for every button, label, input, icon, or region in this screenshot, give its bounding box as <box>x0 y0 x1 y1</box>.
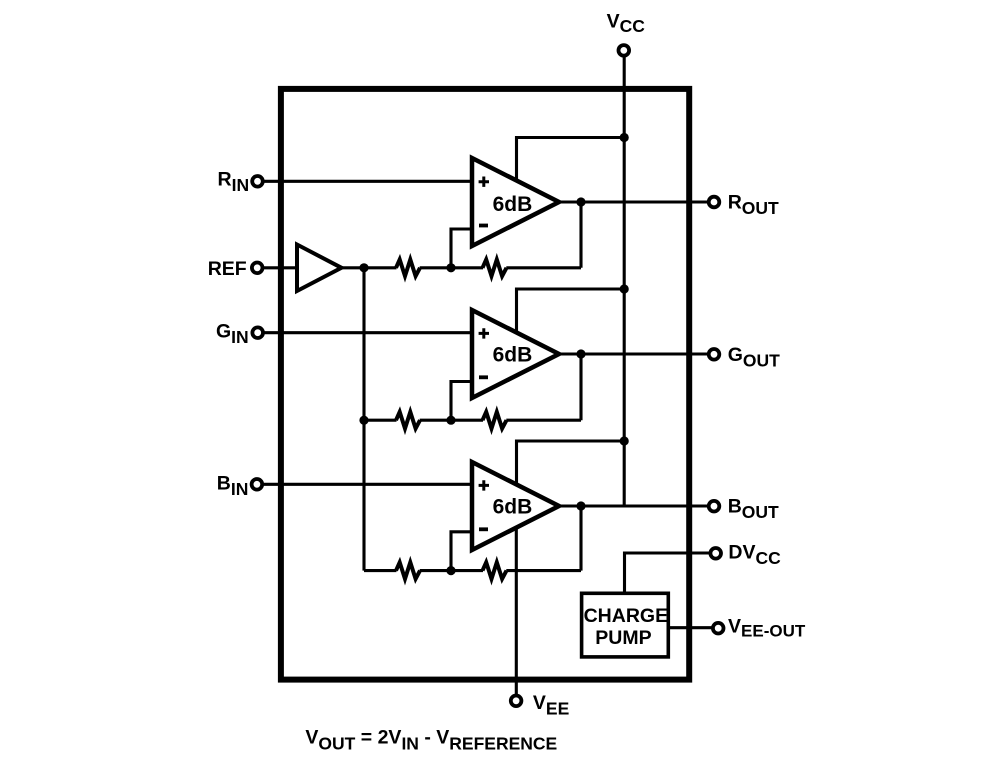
junction dot VCC-R <box>620 133 629 142</box>
charge pump block <box>582 593 669 657</box>
wire R output down <box>579 202 582 268</box>
wire G output down <box>579 354 582 420</box>
junction dot REF-G branch <box>359 416 368 425</box>
resistor B-row feedback <box>483 562 507 579</box>
wire RIN input <box>264 180 474 183</box>
terminal VEE <box>511 696 522 707</box>
junction dot R output <box>576 197 585 206</box>
wire buffer output to node <box>341 266 364 269</box>
svg-text:6dB: 6dB <box>493 496 533 519</box>
terminal RIN <box>252 176 263 187</box>
terminal BIN <box>252 479 263 490</box>
terminal REF <box>252 263 263 274</box>
terminal DVCC <box>710 548 721 559</box>
svg-text:6dB: 6dB <box>493 344 533 367</box>
wire BIN input <box>264 483 474 486</box>
junction dot G inverting node <box>446 416 455 425</box>
junction dot B inverting node <box>446 566 455 575</box>
wire B output <box>559 504 708 507</box>
resistor R-row input <box>396 260 420 277</box>
op-amp B plus input marker <box>479 480 489 490</box>
svg-text:CHARGE: CHARGE <box>584 605 669 627</box>
wire R output <box>559 200 708 203</box>
wire B row segments <box>364 569 397 572</box>
op-amp R plus input marker <box>479 177 489 187</box>
terminal GOUT <box>709 349 720 360</box>
junction dot REF node <box>359 263 368 272</box>
svg-text:6dB: 6dB <box>493 193 533 216</box>
wire B inverting elbow <box>451 532 474 571</box>
wire REF input <box>264 266 299 269</box>
wire R feedback-top to VCC <box>517 138 625 183</box>
op-amp G minus input marker <box>479 375 488 379</box>
resistor G-row feedback <box>483 412 507 429</box>
wire GIN input <box>264 331 474 334</box>
wire charge pump output <box>669 626 712 629</box>
op-amp R minus input marker <box>479 224 488 228</box>
wire R row segments <box>364 266 397 269</box>
junction dot G output <box>576 349 585 358</box>
buffer amp REF <box>297 245 342 292</box>
op-amp B 6dB <box>472 462 559 550</box>
wire R inverting elbow <box>451 229 474 268</box>
wire B output down <box>579 506 582 571</box>
svg-text:REF: REF <box>208 258 247 280</box>
junction dot B output <box>576 501 585 510</box>
resistor B-row input <box>396 562 420 579</box>
op-amp G plus input marker <box>479 328 489 338</box>
terminal ROUT <box>709 197 720 208</box>
chip outline box <box>281 89 689 680</box>
wire G inverting elbow <box>451 382 474 421</box>
wire B feedback-top to VCC <box>517 441 625 486</box>
op-amp G 6dB <box>472 310 559 398</box>
junction dot R inverting node <box>446 263 455 272</box>
wire VEE vertical <box>515 527 518 694</box>
terminal BOUT <box>709 501 720 512</box>
wire VCC rail vertical <box>623 56 626 506</box>
terminal VCC <box>619 45 630 56</box>
terminal VEE-OUT <box>713 623 724 634</box>
svg-text:PUMP: PUMP <box>595 627 651 649</box>
resistor R-row feedback <box>483 260 507 277</box>
wire REF rail vertical <box>362 268 365 571</box>
op-amp R 6dB <box>472 158 559 246</box>
terminal GIN <box>252 327 263 338</box>
wire G row segments <box>364 419 397 422</box>
wire G feedback-top to VCC <box>517 289 625 334</box>
wire DVCC elbow to charge pump <box>625 553 710 593</box>
junction dot VCC-B <box>620 436 629 445</box>
resistor G-row input <box>396 412 420 429</box>
junction dot VCC-G <box>620 284 629 293</box>
wire G output <box>559 352 708 355</box>
op-amp B minus input marker <box>479 527 488 531</box>
